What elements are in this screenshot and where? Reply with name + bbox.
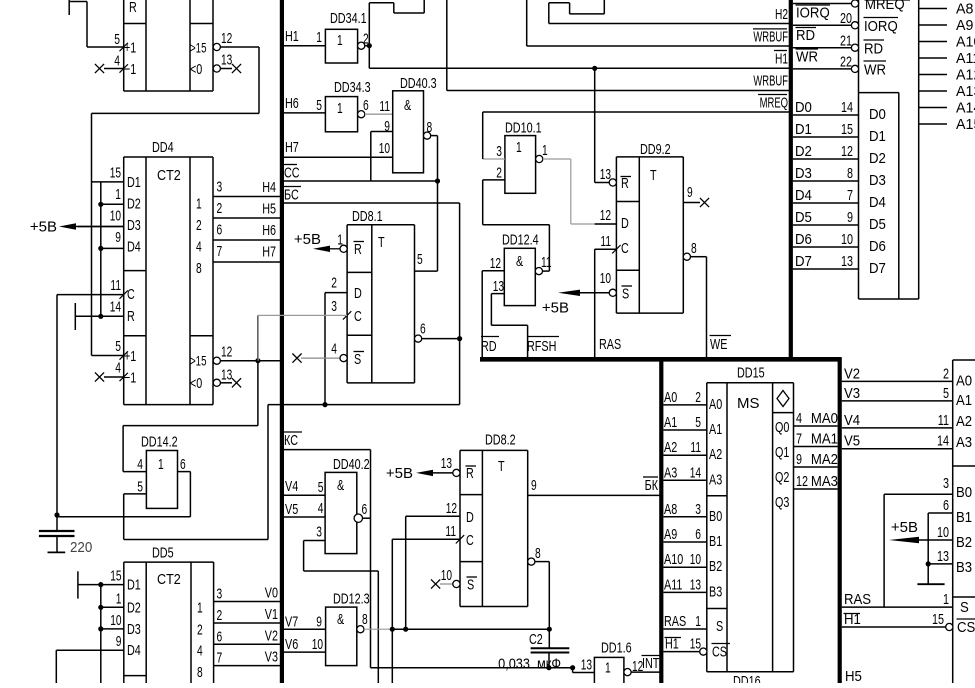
svg-text:A14: A14 <box>956 100 975 117</box>
svg-text:D1: D1 <box>869 128 886 145</box>
svg-text:DD12.3: DD12.3 <box>333 591 370 608</box>
svg-text:CS: CS <box>712 644 727 661</box>
svg-text:6: 6 <box>943 497 949 514</box>
svg-text:DD40.2: DD40.2 <box>333 456 370 473</box>
svg-text:D7: D7 <box>795 253 812 270</box>
svg-text:RFSH: RFSH <box>527 338 556 355</box>
svg-text:11: 11 <box>445 523 456 540</box>
svg-text:H1: H1 <box>285 28 299 45</box>
svg-text:DD16: DD16 <box>733 673 761 683</box>
svg-text:БС: БС <box>284 187 299 204</box>
svg-text:12: 12 <box>841 143 853 160</box>
svg-text:9: 9 <box>115 229 121 246</box>
svg-text:INT: INT <box>642 655 659 672</box>
svg-text:1: 1 <box>197 600 203 617</box>
svg-text:IORQ: IORQ <box>864 18 898 35</box>
svg-text:3: 3 <box>943 475 949 492</box>
svg-text:6: 6 <box>420 321 426 338</box>
svg-text:2: 2 <box>217 607 223 624</box>
svg-text:БК: БК <box>645 477 659 494</box>
svg-text:CC: CC <box>284 165 300 182</box>
svg-text:DD15: DD15 <box>737 365 765 382</box>
svg-text:1: 1 <box>116 590 122 607</box>
svg-text:1: 1 <box>115 186 121 203</box>
svg-text:D4: D4 <box>795 187 812 204</box>
svg-text:7: 7 <box>796 431 802 448</box>
svg-text:0,033: 0,033 <box>498 656 530 673</box>
svg-text:7: 7 <box>217 243 223 260</box>
svg-text:1: 1 <box>943 591 949 608</box>
svg-text:A2: A2 <box>664 439 677 456</box>
svg-text:MA1: MA1 <box>811 431 838 448</box>
svg-text:2: 2 <box>196 217 202 234</box>
svg-text:6: 6 <box>362 501 368 518</box>
svg-text:13: 13 <box>493 278 504 295</box>
svg-text:2: 2 <box>943 365 949 382</box>
svg-text:2: 2 <box>331 275 337 292</box>
svg-text:C: C <box>354 308 362 325</box>
svg-text:B2: B2 <box>956 534 972 551</box>
svg-text:H6: H6 <box>262 222 276 239</box>
svg-text:DD40.3: DD40.3 <box>400 75 437 92</box>
svg-text:A10: A10 <box>956 34 975 51</box>
svg-text:10: 10 <box>379 140 390 157</box>
svg-text:V4: V4 <box>844 412 860 429</box>
svg-text:D5: D5 <box>869 216 886 233</box>
svg-text:V0: V0 <box>265 585 278 602</box>
svg-text:D4: D4 <box>127 642 141 659</box>
svg-text:D6: D6 <box>869 238 886 255</box>
svg-text:7: 7 <box>217 650 223 667</box>
svg-text:A11: A11 <box>664 576 682 593</box>
svg-text:10: 10 <box>110 612 121 629</box>
svg-text:B2: B2 <box>709 558 722 575</box>
svg-text:2: 2 <box>363 31 369 48</box>
svg-text:H1: H1 <box>775 51 788 68</box>
svg-text:12: 12 <box>796 473 808 490</box>
svg-text:R: R <box>129 0 137 16</box>
svg-text:DD8.1: DD8.1 <box>352 208 383 225</box>
svg-text:+5В: +5В <box>386 465 413 482</box>
svg-text:6: 6 <box>217 628 223 645</box>
svg-text:5: 5 <box>943 385 949 402</box>
svg-text:10: 10 <box>441 567 452 584</box>
svg-text:1: 1 <box>158 456 164 473</box>
svg-text:Q0: Q0 <box>775 419 789 436</box>
svg-text:DD14.2: DD14.2 <box>141 434 178 451</box>
svg-text:T: T <box>650 167 657 184</box>
svg-text:−1: −1 <box>124 370 136 387</box>
svg-text:S: S <box>622 286 629 303</box>
svg-text:9: 9 <box>384 118 390 135</box>
svg-text:Q1: Q1 <box>775 444 789 461</box>
svg-text:15: 15 <box>841 121 853 138</box>
svg-text:1: 1 <box>337 100 343 117</box>
svg-text:10: 10 <box>600 270 611 287</box>
svg-text:+5В: +5В <box>30 219 57 236</box>
svg-text:Q3: Q3 <box>775 494 789 511</box>
svg-text:WE: WE <box>710 336 727 353</box>
svg-text:4: 4 <box>137 456 143 473</box>
svg-text:9: 9 <box>847 209 853 226</box>
svg-text:D2: D2 <box>795 143 812 160</box>
svg-text:4: 4 <box>796 410 802 427</box>
svg-text:S: S <box>716 618 723 635</box>
svg-text:T: T <box>498 458 505 475</box>
svg-text:8: 8 <box>691 240 697 257</box>
svg-text:4: 4 <box>318 500 324 517</box>
svg-text:>15: >15 <box>190 41 207 56</box>
svg-text:4: 4 <box>115 360 121 377</box>
svg-text:A9: A9 <box>664 526 677 543</box>
svg-text:C: C <box>127 286 135 303</box>
svg-text:CT2: CT2 <box>157 167 181 184</box>
svg-text:WR: WR <box>796 49 818 66</box>
svg-text:A12: A12 <box>956 67 975 84</box>
svg-text:11: 11 <box>541 254 552 271</box>
svg-text:КC: КC <box>284 432 298 449</box>
svg-text:A0: A0 <box>956 373 972 390</box>
svg-text:<0: <0 <box>190 61 202 78</box>
svg-text:12: 12 <box>221 344 232 361</box>
svg-text:V5: V5 <box>285 501 298 518</box>
svg-text:WR: WR <box>864 62 886 79</box>
svg-text:13: 13 <box>690 576 701 593</box>
svg-text:S: S <box>960 599 969 616</box>
svg-text:+5В: +5В <box>891 519 918 536</box>
svg-text:D6: D6 <box>795 231 812 248</box>
svg-text:9: 9 <box>687 184 693 201</box>
svg-text:5: 5 <box>115 338 121 355</box>
svg-text:5: 5 <box>695 414 701 431</box>
svg-text:DD4: DD4 <box>152 139 174 156</box>
svg-text:3: 3 <box>496 143 502 160</box>
svg-text:1: 1 <box>337 32 343 49</box>
svg-text:2: 2 <box>197 621 203 638</box>
svg-text:мкФ: мкФ <box>537 656 561 673</box>
svg-text:B0: B0 <box>709 508 722 525</box>
svg-text:RAS: RAS <box>844 591 871 608</box>
svg-text:<0: <0 <box>190 375 202 392</box>
svg-text:8: 8 <box>362 611 368 628</box>
svg-text:A3: A3 <box>664 464 677 481</box>
svg-text:H4: H4 <box>262 179 276 196</box>
svg-text:V2: V2 <box>844 365 860 382</box>
svg-text:3: 3 <box>331 298 337 315</box>
svg-text:D1: D1 <box>795 121 812 138</box>
svg-text:13: 13 <box>441 455 452 472</box>
svg-text:14: 14 <box>841 99 853 116</box>
svg-text:RD: RD <box>481 338 497 355</box>
svg-text:9: 9 <box>531 477 537 494</box>
svg-text:11: 11 <box>938 412 949 429</box>
svg-text:A0: A0 <box>664 389 677 406</box>
svg-text:D3: D3 <box>127 621 141 638</box>
svg-text:11: 11 <box>110 277 121 294</box>
svg-text:5: 5 <box>137 479 143 496</box>
svg-text:3: 3 <box>217 586 223 603</box>
svg-text:6: 6 <box>180 456 186 473</box>
svg-text:13: 13 <box>581 657 592 674</box>
svg-text:WRBUF: WRBUF <box>753 73 788 90</box>
svg-text:D2: D2 <box>127 196 141 213</box>
svg-text:15: 15 <box>110 165 121 182</box>
svg-text:R: R <box>621 175 629 192</box>
svg-text:5: 5 <box>114 31 120 48</box>
svg-text:D4: D4 <box>869 194 886 211</box>
svg-text:14: 14 <box>110 299 121 316</box>
svg-text:5: 5 <box>316 97 322 114</box>
svg-text:9: 9 <box>116 633 122 650</box>
svg-text:A1: A1 <box>664 414 677 431</box>
svg-text:22: 22 <box>840 54 852 71</box>
svg-text:B3: B3 <box>956 559 972 576</box>
svg-text:H2: H2 <box>775 6 788 23</box>
svg-text:MREQ: MREQ <box>760 95 788 112</box>
svg-text:A3: A3 <box>956 434 972 451</box>
svg-text:5: 5 <box>417 251 423 268</box>
svg-text:220: 220 <box>70 539 92 556</box>
svg-text:C: C <box>466 532 474 549</box>
svg-text:11: 11 <box>379 98 390 115</box>
svg-text:MA0: MA0 <box>811 410 838 427</box>
svg-text:DD12.4: DD12.4 <box>502 232 539 249</box>
svg-text:D0: D0 <box>869 106 886 123</box>
svg-text:IORQ: IORQ <box>796 5 830 22</box>
svg-text:A2: A2 <box>956 413 972 430</box>
svg-text:14: 14 <box>690 464 701 481</box>
svg-text:R: R <box>127 308 135 325</box>
svg-text:11: 11 <box>600 233 611 250</box>
svg-text:A1: A1 <box>709 421 722 438</box>
svg-text:9: 9 <box>316 613 322 630</box>
svg-text:V1: V1 <box>265 606 278 623</box>
svg-text:6: 6 <box>695 526 701 543</box>
svg-text:&: & <box>516 253 523 270</box>
svg-text:20: 20 <box>840 10 852 27</box>
svg-text:D2: D2 <box>869 150 886 167</box>
svg-text:13: 13 <box>841 253 853 270</box>
svg-text:D2: D2 <box>127 599 141 616</box>
svg-text:V3: V3 <box>265 649 278 666</box>
svg-text:RD: RD <box>796 27 815 44</box>
svg-text:D1: D1 <box>127 174 141 191</box>
svg-text:13: 13 <box>937 548 949 565</box>
svg-text:CT2: CT2 <box>157 571 181 588</box>
svg-text:1: 1 <box>542 142 548 159</box>
svg-text:8: 8 <box>535 545 541 562</box>
svg-text:10: 10 <box>110 208 121 225</box>
svg-text:A11: A11 <box>956 50 975 67</box>
svg-text:+5В: +5В <box>542 300 569 317</box>
svg-text:8: 8 <box>847 165 853 182</box>
svg-text:A9: A9 <box>956 17 973 34</box>
svg-text:DD1.6: DD1.6 <box>601 640 632 657</box>
svg-text:−1: −1 <box>124 61 136 78</box>
svg-text:DD9.2: DD9.2 <box>640 141 671 158</box>
svg-text:A8: A8 <box>664 501 677 518</box>
svg-text:>15: >15 <box>190 354 207 369</box>
svg-text:7: 7 <box>847 187 853 204</box>
svg-text:8: 8 <box>196 260 202 277</box>
svg-text:D: D <box>621 215 629 232</box>
svg-text:CS: CS <box>957 619 975 636</box>
svg-text:4: 4 <box>196 239 202 256</box>
svg-text:R: R <box>354 241 362 258</box>
svg-text:D5: D5 <box>795 209 812 226</box>
svg-text:D0: D0 <box>795 99 812 116</box>
svg-text:1: 1 <box>316 29 322 46</box>
svg-text:V5: V5 <box>844 433 860 450</box>
svg-text:C: C <box>621 240 629 257</box>
svg-text:21: 21 <box>840 33 852 50</box>
svg-text:DD5: DD5 <box>152 545 174 562</box>
svg-text:A15: A15 <box>956 116 975 133</box>
svg-text:12: 12 <box>600 207 611 224</box>
svg-text:A2: A2 <box>709 446 722 463</box>
svg-text:&: & <box>337 477 344 494</box>
svg-text:B1: B1 <box>709 533 722 550</box>
svg-text:S: S <box>354 351 361 368</box>
svg-text:MA3: MA3 <box>811 473 838 490</box>
svg-text:3: 3 <box>695 501 701 518</box>
svg-text:A10: A10 <box>664 551 683 568</box>
svg-text:5: 5 <box>318 479 324 496</box>
svg-text:MS: MS <box>737 395 760 412</box>
svg-text:12: 12 <box>446 500 457 517</box>
svg-text:D3: D3 <box>127 217 141 234</box>
svg-text:10: 10 <box>937 524 949 541</box>
svg-text:4: 4 <box>114 53 120 70</box>
svg-text:13: 13 <box>221 367 232 384</box>
svg-text:D4: D4 <box>127 239 141 256</box>
svg-text:B3: B3 <box>709 583 722 600</box>
svg-text:V4: V4 <box>285 478 298 495</box>
svg-text:H7: H7 <box>285 139 299 156</box>
svg-text:S: S <box>467 577 474 594</box>
svg-text:D3: D3 <box>795 165 812 182</box>
svg-text:H6: H6 <box>285 95 299 112</box>
svg-text:B1: B1 <box>956 509 972 526</box>
svg-text:R: R <box>466 465 474 482</box>
svg-text:11: 11 <box>690 439 701 456</box>
svg-text:A0: A0 <box>709 396 722 413</box>
svg-text:12: 12 <box>490 255 501 272</box>
svg-text:A1: A1 <box>956 392 972 409</box>
svg-text:V6: V6 <box>285 636 298 653</box>
svg-text:8: 8 <box>197 664 203 681</box>
svg-text:10: 10 <box>841 231 853 248</box>
svg-text:H7: H7 <box>262 244 276 261</box>
svg-text:Q2: Q2 <box>775 469 789 486</box>
svg-text:1: 1 <box>337 232 343 249</box>
svg-text:C2: C2 <box>529 631 543 648</box>
svg-text:H5: H5 <box>845 668 862 683</box>
svg-text:V7: V7 <box>285 614 298 631</box>
svg-text:MREQ: MREQ <box>865 0 905 13</box>
svg-text:A13: A13 <box>956 83 975 100</box>
svg-text:D1: D1 <box>127 577 141 594</box>
svg-text:+1: +1 <box>124 40 136 57</box>
svg-text:15: 15 <box>690 636 701 653</box>
svg-text:2: 2 <box>496 165 502 182</box>
svg-text:9: 9 <box>796 451 802 468</box>
svg-text:1: 1 <box>196 196 202 213</box>
svg-text:+5В: +5В <box>294 231 321 248</box>
svg-text:&: & <box>337 611 344 628</box>
svg-text:10: 10 <box>312 636 323 653</box>
svg-text:V2: V2 <box>265 627 278 644</box>
svg-text:14: 14 <box>937 433 949 450</box>
svg-text:D: D <box>466 509 474 526</box>
svg-text:1: 1 <box>605 660 611 677</box>
svg-text:A3: A3 <box>709 471 722 488</box>
svg-text:DD34.1: DD34.1 <box>330 10 367 27</box>
svg-text:H5: H5 <box>262 201 276 218</box>
svg-text:WRBUF: WRBUF <box>753 29 788 46</box>
svg-text:15: 15 <box>110 568 121 585</box>
svg-text:D3: D3 <box>869 172 886 189</box>
svg-text:1: 1 <box>516 139 522 156</box>
svg-text:+1: +1 <box>124 348 136 365</box>
svg-text:3: 3 <box>316 524 322 541</box>
svg-text:B0: B0 <box>956 484 972 501</box>
svg-text:2: 2 <box>695 389 701 406</box>
svg-text:3: 3 <box>217 179 223 196</box>
svg-text:10: 10 <box>690 551 701 568</box>
svg-text:MA2: MA2 <box>811 451 838 468</box>
svg-text:4: 4 <box>197 643 203 660</box>
svg-text:DD8.2: DD8.2 <box>485 432 516 449</box>
svg-text:RAS: RAS <box>599 336 621 353</box>
svg-text:D: D <box>354 285 362 302</box>
svg-text:6: 6 <box>363 97 369 114</box>
svg-text:12: 12 <box>221 30 232 47</box>
svg-text:&: & <box>404 97 411 114</box>
svg-text:1: 1 <box>695 613 701 630</box>
svg-text:13: 13 <box>221 52 232 69</box>
svg-text:15: 15 <box>932 611 944 628</box>
svg-text:2: 2 <box>217 200 223 217</box>
svg-text:T: T <box>378 234 385 251</box>
svg-text:D7: D7 <box>869 260 886 277</box>
svg-text:RD: RD <box>864 41 883 58</box>
svg-text:4: 4 <box>331 341 337 358</box>
svg-text:DD34.3: DD34.3 <box>334 79 371 96</box>
svg-text:6: 6 <box>217 222 223 239</box>
svg-text:V3: V3 <box>844 385 860 402</box>
svg-text:DD10.1: DD10.1 <box>505 120 542 137</box>
svg-text:RAS: RAS <box>664 613 686 630</box>
svg-text:A8: A8 <box>956 1 973 18</box>
